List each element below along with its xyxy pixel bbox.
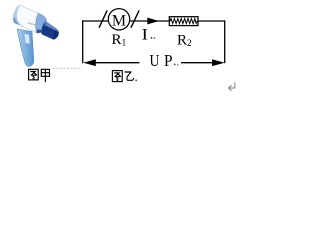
label 图甲 (figure A caption) — [29, 69, 50, 81]
motor M (R1): circle — [108, 9, 129, 30]
current direction arrow — [147, 18, 159, 25]
svg-text:R1: R1 — [112, 32, 127, 49]
hair dryer (photo, figure A) — [13, 5, 59, 66]
faint table border line — [53, 67, 83, 69]
wire: left vertical — [82, 20, 84, 63]
front collar — [36, 13, 47, 33]
svg-text:I: I — [142, 26, 149, 43]
bottom wire left segment with voltage arrowhead (left) — [83, 59, 139, 66]
resistor R2: box — [169, 17, 198, 26]
handle — [17, 29, 34, 66]
wire: top left segment — [82, 20, 108, 22]
wire: top middle segment (motor to resistor) — [130, 20, 170, 22]
svg-text:U: U — [150, 51, 160, 70]
resistor R2: zigzag element — [170, 19, 197, 24]
barrel body — [13, 5, 46, 33]
paragraph mark (return symbol) — [229, 83, 235, 91]
nozzle — [41, 21, 59, 40]
wire: top right segment — [198, 20, 226, 22]
tiny brand text on barrel — [28, 22, 39, 27]
svg-text:P: P — [164, 51, 173, 70]
label 图乙 (figure B caption) — [112, 71, 133, 82]
back cap — [13, 5, 21, 25]
svg-text:R2: R2 — [177, 33, 192, 50]
wire: right vertical — [224, 20, 226, 63]
bottom wire right segment with voltage arrowhead (right) — [181, 59, 225, 66]
motor M (R1): brush slash right — [131, 10, 139, 27]
svg-text:M: M — [112, 12, 126, 29]
barrel bottom shading — [14, 19, 40, 34]
motor M (R1): brush slash left — [99, 10, 107, 27]
